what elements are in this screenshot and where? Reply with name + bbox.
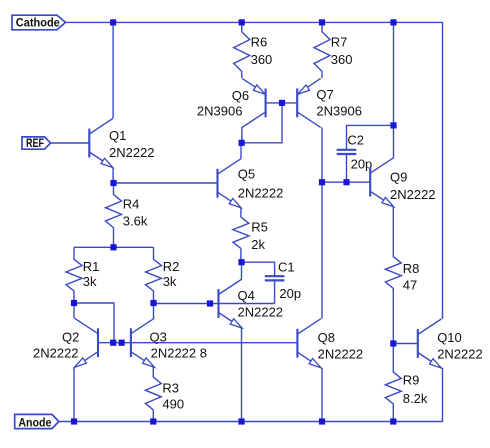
- svg-text:R9: R9: [403, 373, 420, 388]
- label Q5: [238, 167, 284, 201]
- wire cathode top rail: [66, 22, 443, 319]
- svg-text:3k: 3k: [83, 274, 97, 289]
- wire base link: [266, 102, 298, 104]
- svg-text:R4: R4: [123, 197, 140, 212]
- svg-text:3k: 3k: [163, 274, 177, 289]
- label R7: [331, 35, 353, 67]
- resistor R3: [145, 367, 161, 421]
- junction R9 / anode rail: [390, 418, 396, 424]
- transistor Q2: [75, 318, 99, 367]
- transistor Q9: [370, 158, 394, 207]
- label R9: [403, 373, 428, 406]
- svg-text:Anode: Anode: [18, 416, 51, 430]
- svg-text:2N3906: 2N3906: [316, 104, 362, 119]
- flag Cathode: [12, 15, 66, 30]
- wire Q7 collector: [321, 127, 323, 318]
- junction Q4 base node: [207, 300, 213, 306]
- junction C2 top / Q9 collector: [390, 122, 396, 128]
- svg-text:2k: 2k: [251, 237, 265, 252]
- label R4: [123, 197, 148, 229]
- svg-text:2N3906: 2N3906: [197, 104, 243, 119]
- flag REF: [22, 136, 51, 150]
- svg-text:Cathode: Cathode: [16, 16, 60, 30]
- wire C2 bottom: [346, 154, 348, 182]
- svg-text:Q9: Q9: [390, 170, 407, 185]
- svg-text:R3: R3: [162, 380, 179, 395]
- svg-text:2N2222: 2N2222: [238, 186, 284, 201]
- junction R6 / cathode rail: [239, 19, 245, 25]
- wire Q2 emitter: [73, 367, 75, 421]
- label R5: [251, 220, 268, 252]
- wire C1 bottom: [274, 280, 276, 303]
- svg-text:Q8: Q8: [318, 330, 335, 345]
- svg-text:360: 360: [331, 52, 353, 67]
- wire Q6 collector: [241, 127, 243, 143]
- svg-text:47: 47: [403, 278, 417, 293]
- junction R7 / cathode rail: [319, 19, 325, 25]
- svg-text:Q5: Q5: [238, 167, 255, 182]
- svg-text:490: 490: [162, 397, 184, 412]
- svg-text:20p: 20p: [279, 286, 301, 301]
- label R2: [163, 259, 180, 289]
- svg-text:R5: R5: [251, 220, 268, 235]
- wire Q8 emitter: [321, 368, 323, 422]
- resistor R2: [146, 247, 162, 303]
- svg-text:2N2222: 2N2222: [238, 304, 284, 319]
- junction R3 / anode rail: [150, 418, 156, 424]
- svg-text:R7: R7: [331, 35, 348, 50]
- wire Q5 collector: [240, 143, 242, 159]
- label R6: [251, 35, 273, 67]
- label Q8: [318, 330, 364, 362]
- svg-text:Q2: Q2: [62, 330, 79, 345]
- label Q9: [390, 170, 436, 202]
- svg-text:R6: R6: [251, 35, 268, 50]
- resistor R5: [233, 208, 249, 263]
- wire R1-R2 top: [74, 246, 154, 248]
- wire Q1 collector: [112, 22, 114, 118]
- transistor Q7: [297, 78, 321, 127]
- svg-text:2N2222: 2N2222: [390, 187, 436, 202]
- label C1: [278, 259, 301, 301]
- wire C2 top: [347, 125, 394, 149]
- svg-text:20p: 20p: [351, 156, 373, 171]
- flag Anode: [15, 414, 59, 429]
- svg-text:2N2222 8: 2N2222 8: [151, 346, 207, 361]
- junction Q5-Q6 collector node: [239, 140, 245, 146]
- svg-text:C2: C2: [347, 133, 364, 148]
- junction Q9 collector / cathode rail: [390, 19, 396, 25]
- resistor R9: [385, 344, 401, 422]
- svg-text:2N2222: 2N2222: [318, 347, 364, 362]
- svg-text:3.6k: 3.6k: [123, 214, 148, 229]
- junction Q2 emitter / anode rail: [71, 418, 77, 424]
- wire Q2 collector: [73, 303, 75, 318]
- label Q6: [197, 88, 249, 119]
- label Q2: [33, 330, 79, 361]
- label Q3: [150, 330, 207, 361]
- label R1: [83, 259, 100, 289]
- label Q1: [109, 128, 155, 160]
- junction Q7 collector / Q9 base wire: [319, 179, 325, 185]
- svg-text:C1: C1: [278, 259, 295, 274]
- junction Q4 emitter / anode rail: [238, 418, 244, 424]
- transistor Q8: [297, 319, 321, 368]
- junction Q3 base: [119, 340, 125, 346]
- svg-text:R1: R1: [83, 259, 100, 274]
- label Q10: [437, 330, 483, 362]
- junction R4 / R1-R2 node: [110, 244, 116, 250]
- label R3: [162, 380, 184, 411]
- transistor Q10: [418, 319, 442, 368]
- junction Q1 collector / cathode rail: [110, 19, 116, 25]
- svg-text:REF: REF: [26, 136, 44, 150]
- transistor Q6: [242, 78, 266, 127]
- svg-text:Q10: Q10: [437, 330, 462, 345]
- junction R8 / R9 / Q10 base: [390, 340, 396, 346]
- resistor R4: [106, 183, 122, 247]
- label Q4: [238, 288, 284, 319]
- resistor R8: [385, 207, 401, 344]
- svg-text:Q4: Q4: [238, 288, 255, 303]
- wire Q3 collector: [153, 303, 155, 318]
- svg-text:360: 360: [251, 52, 273, 67]
- transistor Q5: [218, 159, 242, 208]
- junction Q2 base: [110, 340, 116, 346]
- resistor R7: [314, 22, 330, 78]
- transistor Q3: [131, 318, 155, 367]
- resistor R6: [234, 22, 250, 78]
- svg-text:2N2222: 2N2222: [33, 346, 79, 361]
- junction Q6-Q7 base tie: [279, 100, 285, 106]
- label R8: [403, 261, 420, 293]
- svg-text:R2: R2: [163, 259, 180, 274]
- wire Q1emitter to Q5 base: [114, 182, 218, 184]
- junction R2 / Q3 collector: [150, 300, 156, 306]
- svg-text:Q7: Q7: [316, 87, 333, 102]
- wire Q1 emitter: [112, 168, 114, 184]
- wire Q9 base lead: [322, 181, 370, 183]
- svg-text:Q6: Q6: [232, 88, 249, 103]
- wire Q4 collector: [241, 262, 243, 279]
- junction Q8 emitter / anode rail: [319, 418, 325, 424]
- capacitor C1: [265, 276, 285, 280]
- transistor Q1: [89, 119, 113, 168]
- wire Q9 collector: [393, 22, 395, 157]
- svg-text:2N2222: 2N2222: [109, 145, 155, 160]
- resistor R1: [66, 247, 82, 303]
- wire Q10 base: [393, 343, 418, 345]
- wire base bus: [98, 342, 297, 344]
- junction R1 / Q2 collector: [71, 300, 77, 306]
- svg-text:8.2k: 8.2k: [403, 391, 428, 406]
- wire anode bottom rail: [59, 368, 443, 422]
- capacitor C2: [337, 150, 357, 154]
- wire Q4 emitter: [241, 328, 243, 422]
- transistor Q4: [219, 279, 243, 328]
- wire Q1 base: [51, 142, 90, 144]
- wire C1 top: [242, 262, 275, 276]
- label Q7: [316, 87, 362, 118]
- label C2: [347, 133, 372, 172]
- junction R5 / Q4 collector / C1: [238, 259, 244, 265]
- svg-text:Q1: Q1: [109, 128, 126, 143]
- wire R2 bottom to Q4 base and C1: [154, 303, 275, 305]
- junction C2 bottom / Q9 base wire: [343, 179, 349, 185]
- wire R1 bottom to bases: [74, 303, 114, 343]
- junction Q1 emitter / R4 / Q5 base: [110, 180, 116, 186]
- svg-text:R8: R8: [403, 261, 420, 276]
- svg-text:2N2222: 2N2222: [437, 347, 483, 362]
- wire Q6-Q7 base tie: [242, 103, 282, 143]
